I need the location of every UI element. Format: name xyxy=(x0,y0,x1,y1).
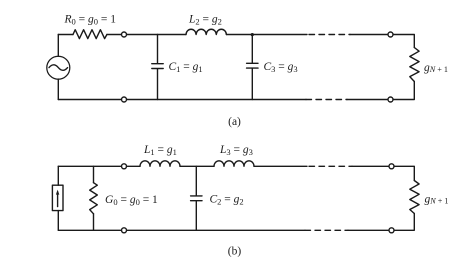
svg-text:L1 = g1: L1 = g1 xyxy=(143,144,177,157)
wire: (a) bottom dashed continuation xyxy=(306,99,347,101)
conductance G0 branch lower wire xyxy=(93,214,95,231)
node: (b) bottom open terminal xyxy=(122,228,127,233)
wire: (b) top, node to inductor xyxy=(127,165,140,167)
resistor gN+1 (a) xyxy=(410,48,419,82)
wire: (a) top, corner to resistor xyxy=(58,34,73,36)
svg-text:(b): (b) xyxy=(228,246,242,258)
svg-text:R0 = g0 = 1: R0 = g0 = 1 xyxy=(64,14,117,27)
wire: (a) left vertical upper xyxy=(57,35,59,57)
wire: (b) left vertical lower xyxy=(57,211,59,231)
svg-text:(a): (a) xyxy=(228,116,241,128)
wire: (a) left vertical lower xyxy=(57,79,59,99)
node: (a) top right open terminal xyxy=(388,32,393,37)
current source Is xyxy=(52,185,63,210)
svg-text:G0 = g0 = 1: G0 = g0 = 1 xyxy=(105,194,158,207)
conductance G0 branch upper wire xyxy=(93,166,95,182)
node: (b) top open terminal xyxy=(122,164,127,169)
svg-text:C2 = g2: C2 = g2 xyxy=(210,194,244,207)
wire: (a) top, node to inductor xyxy=(127,34,186,36)
wire: (b) top, L1 to L3 xyxy=(180,165,214,167)
svg-text:C1 = g1: C1 = g1 xyxy=(169,61,203,74)
node: (b) top right open terminal xyxy=(389,164,394,169)
wire: (a) top right corner xyxy=(393,35,414,48)
node: (a) bottom right open terminal xyxy=(388,97,393,102)
node: (a) bottom open terminal xyxy=(122,97,127,102)
inductor L1 xyxy=(140,161,180,167)
node: (b) bottom right open terminal xyxy=(389,228,394,233)
resistor gN+1 (b) xyxy=(410,181,419,214)
capacitor C2 xyxy=(191,195,202,197)
capacitor C3 xyxy=(247,62,258,64)
wire: (a) top dashed continuation xyxy=(309,34,350,36)
wire: (a) top, inductor to dash xyxy=(226,34,307,36)
wire: (b) top, dash to node xyxy=(352,165,389,167)
capacitor C1 xyxy=(152,63,163,65)
wire: (b) bottom dashed continuation xyxy=(305,229,348,231)
wire: (a) right vertical lower xyxy=(393,82,414,100)
wire: (a) top, dash to node xyxy=(350,34,388,36)
svg-text:C3 = g3: C3 = g3 xyxy=(264,61,298,74)
capacitor C2 branch upper wire xyxy=(195,166,197,195)
wire: (a) top, resistor to node xyxy=(107,34,121,36)
svg-text:L3 = g3: L3 = g3 xyxy=(219,144,253,157)
wire: (b) bottom, node to dash xyxy=(127,229,305,231)
wire: (b) bottom left xyxy=(58,229,121,231)
wire: (a) bottom left xyxy=(58,99,121,101)
wire: (b) bottom, dash to node xyxy=(348,229,389,231)
capacitor C1 branch lower wire xyxy=(157,69,159,100)
capacitor C1 branch upper wire xyxy=(157,35,159,64)
capacitor C3 branch upper wire xyxy=(251,35,253,64)
wire: (b) right vertical lower xyxy=(394,214,414,231)
wire: (b) top right corner xyxy=(394,166,414,180)
inductor L2 xyxy=(186,29,226,34)
wire: (b) left vertical upper xyxy=(57,166,59,185)
wire: (b) top left xyxy=(58,165,121,167)
inductor L3 xyxy=(214,161,254,167)
capacitor C2 branch lower wire xyxy=(195,201,197,230)
resistor G0 xyxy=(90,183,98,214)
svg-text:L2 = g2: L2 = g2 xyxy=(188,14,222,27)
wire: (a) bottom, node to dash xyxy=(127,99,306,101)
wire: (b) top dashed continuation xyxy=(309,165,352,167)
svg-text:gN + 1: gN + 1 xyxy=(425,194,449,206)
node: (a) top open terminal xyxy=(122,32,127,37)
resistor R0 xyxy=(73,30,107,39)
wire: (a) bottom, dash to node xyxy=(347,99,388,101)
wire: (b) top, L3 to dash xyxy=(254,165,307,167)
voltage source Vs (AC) xyxy=(47,56,70,79)
junction dot (a) C3 top xyxy=(251,33,254,36)
capacitor C3 branch lower wire xyxy=(251,68,253,99)
svg-text:gN + 1: gN + 1 xyxy=(424,62,448,74)
